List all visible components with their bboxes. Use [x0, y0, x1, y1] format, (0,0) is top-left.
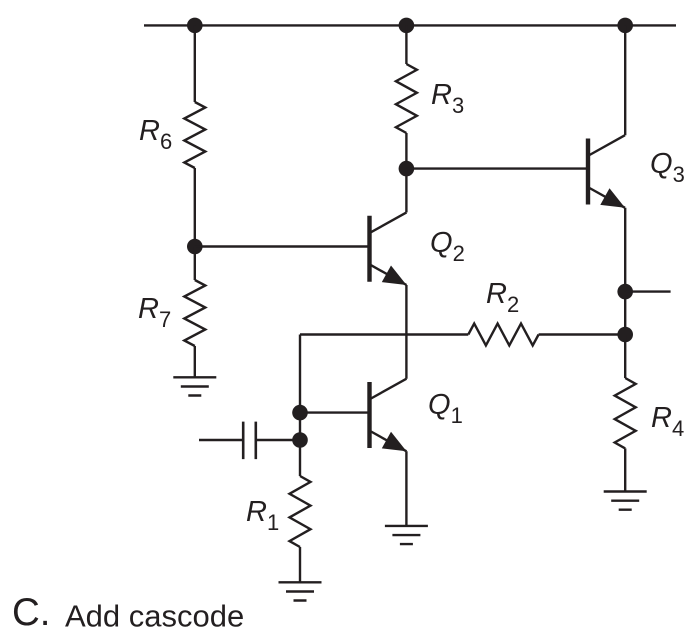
ground under Q1 emitter — [385, 526, 428, 544]
wire rail to R3 — [405, 25, 407, 64]
wire Q3 collector to rail — [624, 25, 626, 135]
ground under R7 — [173, 377, 216, 395]
transistor Q1 — [370, 379, 407, 452]
label R4 — [651, 402, 684, 441]
svg-text:Q1: Q1 — [428, 389, 463, 428]
top supply rail wire — [144, 24, 676, 26]
svg-text:R1: R1 — [246, 496, 279, 535]
label R2 — [486, 278, 519, 317]
svg-text:R6: R6 — [139, 115, 172, 154]
wire R4 to ground — [624, 448, 626, 491]
ground under R4 — [604, 492, 647, 510]
junction dot input node (Q1 base) — [292, 405, 308, 421]
junction dot node rail/R6 — [187, 18, 203, 34]
wire R1 to ground — [299, 547, 301, 582]
svg-text:R2: R2 — [486, 278, 519, 317]
wire node C2 to Q2 collector — [405, 169, 407, 213]
transistor Q3 — [588, 135, 625, 208]
label R6 — [139, 115, 172, 154]
label Q1 — [428, 389, 463, 428]
label R3 — [431, 79, 464, 118]
ground under R1 — [279, 582, 322, 600]
wire R7 to ground — [194, 346, 196, 377]
resistor R2 — [468, 324, 538, 346]
wire node C2 to Q3 base — [406, 167, 586, 169]
resistor R6 — [184, 102, 205, 168]
wire output stub — [625, 290, 670, 292]
junction dot node rail/Q3 collector — [617, 18, 633, 34]
wire node B2 to Q2 base — [195, 245, 368, 247]
capacitor C1 — [243, 422, 300, 460]
wire feedback corner down input node — [299, 335, 301, 477]
junction dot capacitor node — [292, 432, 308, 448]
svg-text:Q2: Q2 — [430, 227, 465, 266]
junction dot node C2 (R3/Q2 collector/Q3 base) — [399, 161, 415, 177]
svg-text:Add cascode: Add cascode — [65, 599, 244, 634]
wire Q1 base node to R2 — [300, 333, 468, 335]
junction dot node B2 (R6/R7/Q2 base) — [187, 239, 203, 255]
svg-text:R7: R7 — [138, 293, 171, 332]
wire R6 to node B2 — [194, 168, 196, 247]
svg-text:Q3: Q3 — [650, 148, 685, 187]
resistor R3 — [396, 64, 417, 133]
resistor R7 — [184, 280, 205, 346]
svg-text:R3: R3 — [431, 79, 464, 118]
wire Q1 emitter to ground — [405, 451, 407, 526]
wire input lead to capacitor — [199, 439, 243, 441]
wire Q1 base to input node — [300, 411, 368, 413]
wire Q3 emitter to output node — [624, 208, 626, 292]
wire R3 to node C2 — [405, 133, 407, 169]
svg-text:R4: R4 — [651, 402, 684, 441]
wire output node to node E3 — [624, 292, 626, 335]
wire R2 to node E3 — [539, 333, 626, 335]
wire node E3 to R4 — [624, 335, 626, 379]
junction dot node rail/R3 — [399, 18, 415, 34]
junction dot node E3 (R2/R4/Q3 emitter) — [617, 327, 633, 343]
label R1 — [246, 496, 279, 535]
resistor R1 — [290, 476, 311, 547]
label Q2 — [430, 227, 465, 266]
label Q3 — [650, 148, 685, 187]
junction dot output node — [617, 284, 633, 300]
wire node B2 to R7 — [194, 247, 196, 281]
wire Q2 emitter to Q1 collector — [405, 285, 407, 379]
label R7 — [138, 293, 171, 332]
svg-text:C.: C. — [12, 591, 51, 634]
wire rail to R6 — [194, 25, 196, 102]
transistor Q2 — [370, 212, 407, 285]
resistor R4 — [615, 378, 636, 448]
